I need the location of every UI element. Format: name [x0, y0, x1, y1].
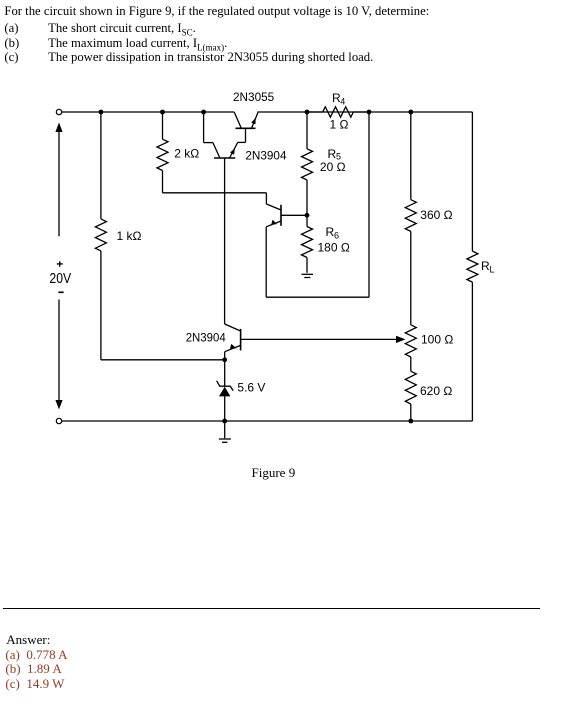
- resistor R6 180 ohm: [302, 227, 313, 258]
- node: 360 ohm branch junction: [408, 110, 413, 115]
- answer (c) 14.9 W: [5, 677, 64, 690]
- wire: R4 right lead: [353, 111, 369, 113]
- transistor Q3 collector diagonal: [266, 204, 281, 210]
- node: top rail / 1k ohm junction: [99, 110, 104, 115]
- label R5: [328, 147, 342, 161]
- wire: 2k ohm to Q3 collector horizontal: [163, 192, 267, 194]
- voltage source 20V lower arrow: [55, 300, 62, 410]
- transistor Q2 2N3904 base bar: [214, 157, 235, 159]
- resistor 620 ohm: [405, 371, 416, 404]
- svg-text:1 kΩ: 1 kΩ: [117, 229, 142, 243]
- answer (a) 0.778 A: [5, 648, 67, 661]
- terminal: positive input terminal: [56, 109, 61, 114]
- node: bottom rail / zener junction: [222, 419, 227, 424]
- transistor Q4 2N3904 collector diagonal: [225, 324, 241, 331]
- transistor Q2 2N3904 collector diagonal: [213, 143, 220, 158]
- svg-text:360 Ω: 360 Ω: [420, 208, 452, 222]
- wire: top rail left segment: [62, 111, 235, 113]
- resistor R5 20 ohm: [302, 149, 313, 180]
- svg-text:2N3055: 2N3055: [233, 90, 275, 104]
- resistor 360 ohm: [405, 200, 416, 232]
- transistor Q3 emitter diagonal with arrow: [266, 220, 281, 227]
- wire: RL top lead: [471, 112, 473, 251]
- resistor R4 1 ohm: [323, 107, 354, 117]
- transistor Q4 2N3904 emitter diagonal with arrow: [225, 344, 241, 352]
- wire: Q4 emitter lead down: [224, 352, 226, 360]
- svg-text:100 Ω: 100 Ω: [421, 333, 453, 347]
- svg-text:4: 4: [340, 96, 345, 106]
- wire: output sense vertical to rail: [368, 112, 370, 297]
- zener diode 5.6V anode triangle: [219, 387, 230, 397]
- voltage source plus sign: [57, 261, 63, 267]
- wire: Q2 emitter to Q1 base stub: [238, 141, 246, 143]
- node: bottom rail / divider junction: [408, 419, 413, 424]
- resistor 2k ohm: [157, 139, 168, 170]
- svg-text:L: L: [490, 265, 495, 275]
- node: Q4 emitter / 1k / zener junction: [222, 357, 227, 362]
- svg-text:2N3904: 2N3904: [245, 149, 286, 163]
- wire: R6 bottom lead: [306, 258, 308, 273]
- svg-text:20V: 20V: [49, 271, 71, 287]
- transistor Q1 2N3055 collector diagonal: [234, 112, 241, 128]
- wire: 1k ohm bottom lead down: [100, 251, 102, 360]
- voltage source minus sign: [58, 291, 63, 293]
- wire: 2k ohm bottom lead: [162, 171, 164, 193]
- wire: RL bottom lead: [471, 282, 473, 421]
- resistor 1k ohm: [95, 219, 106, 251]
- zener diode 5.6V cathode bar: [217, 381, 234, 391]
- node: R4 right junction: [367, 110, 372, 115]
- wire: R5 bottom lead: [306, 180, 308, 215]
- svg-text:6: 6: [334, 230, 339, 240]
- wire: Q3 emitter lead down: [265, 227, 267, 297]
- resistor RL: [467, 251, 478, 282]
- svg-text:2 kΩ: 2 kΩ: [174, 147, 199, 161]
- answer heading: [6, 633, 50, 646]
- separator rule: [3, 608, 540, 609]
- transistor Q1 2N3055 base bar: [236, 127, 256, 129]
- node: R5 / R6 / Q3 base junction: [305, 213, 310, 218]
- label R6: [326, 225, 340, 240]
- circuit schematic Figure 9: [0, 0, 568, 520]
- transistor Q1 2N3055 base lead: [245, 128, 247, 142]
- ground at bottom rail: [219, 421, 231, 442]
- transistor Q2 2N3904 emitter diagonal with arrow: [230, 142, 238, 158]
- problem statement line 1: [4, 5, 429, 18]
- node: R4 left junction: [305, 110, 310, 115]
- svg-text:180 Ω: 180 Ω: [318, 241, 350, 255]
- wire: divider middle lead: [410, 231, 412, 324]
- transistor Q1 2N3055 emitter diagonal with arrow: [251, 113, 258, 129]
- ground under R6: [302, 274, 314, 277]
- problem statement item (a): [4, 22, 195, 39]
- wire: Q3 emitter to output sense horizontal: [266, 296, 369, 298]
- wire: divider bottom lead: [410, 404, 412, 421]
- svg-text:1 Ω: 1 Ω: [330, 118, 349, 132]
- node: top rail / 2k ohm junction: [160, 110, 165, 115]
- voltage source 20V upper arrow: [55, 123, 62, 237]
- transistor Q3 base lead: [281, 214, 307, 216]
- wire: zener anode lead: [224, 396, 226, 421]
- wire: R6 top lead: [306, 215, 308, 226]
- svg-text:20 Ω: 20 Ω: [320, 160, 346, 174]
- resistor 100 ohm: [405, 325, 416, 357]
- wire: R4 left lead: [307, 111, 323, 113]
- label RL: [481, 259, 495, 275]
- wire: Q3 collector vertical stub: [265, 193, 267, 204]
- wire: bottom rail: [62, 420, 473, 422]
- figure caption: [252, 466, 296, 479]
- label R4: [332, 91, 345, 106]
- problem statement item (b): [4, 37, 227, 54]
- wire: divider top lead: [410, 112, 412, 200]
- answer (b) 1.89 A: [5, 662, 61, 675]
- svg-text:5.6 V: 5.6 V: [237, 381, 265, 395]
- wire: Q2 collector stub: [204, 142, 213, 144]
- terminal: negative input terminal: [56, 418, 61, 423]
- problem statement item (c): [4, 51, 373, 64]
- wire: zener cathode lead: [224, 360, 226, 386]
- wire: Q2 base lead vertical: [224, 158, 226, 324]
- transistor Q4 2N3904 base lead / wiper arrow to 100 ohm: [241, 336, 406, 343]
- transistor Q4 2N3904 base bar: [240, 329, 242, 351]
- wire: R5 top lead: [306, 112, 308, 149]
- wire: Q2 collector lead down from rail: [203, 112, 205, 143]
- wire: top rail right segment: [257, 111, 472, 113]
- svg-text:2N3904: 2N3904: [186, 330, 226, 344]
- wire: 1k ohm to zener node horizontal: [101, 359, 225, 361]
- wire: 2k ohm top lead: [162, 112, 164, 139]
- wire: 100 ohm to 620 ohm lead: [410, 357, 412, 371]
- node: top rail / Q2 collector junction: [201, 110, 206, 115]
- wire: 1k ohm top lead: [100, 112, 102, 219]
- transistor Q3 base bar: [280, 205, 282, 226]
- svg-text:620 Ω: 620 Ω: [420, 384, 452, 398]
